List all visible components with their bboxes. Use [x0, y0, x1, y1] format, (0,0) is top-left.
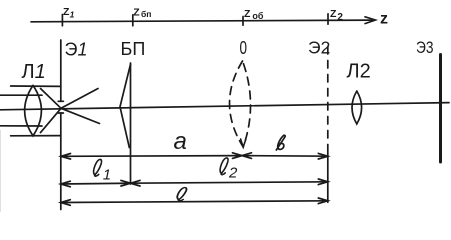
svg-text:Л1: Л1 — [22, 61, 46, 83]
svg-text:Э3: Э3 — [416, 38, 434, 57]
svg-text:2: 2 — [337, 12, 343, 23]
svg-text:об: об — [252, 11, 263, 21]
svg-text:Э2: Э2 — [308, 38, 330, 58]
svg-text:z: z — [380, 11, 388, 28]
svg-text:1: 1 — [103, 167, 111, 184]
svg-text:2: 2 — [228, 165, 238, 182]
svg-text:a: a — [174, 128, 187, 155]
svg-text:Z: Z — [330, 8, 337, 20]
svg-text:Z: Z — [244, 8, 251, 20]
svg-text:Э1: Э1 — [65, 39, 88, 59]
svg-text:1: 1 — [70, 9, 75, 19]
svg-text:БП: БП — [121, 39, 146, 59]
svg-text:Z: Z — [133, 7, 140, 19]
svg-text:бп: бп — [141, 9, 152, 19]
svg-text:Л2: Л2 — [347, 61, 371, 83]
svg-text:0: 0 — [240, 38, 248, 58]
